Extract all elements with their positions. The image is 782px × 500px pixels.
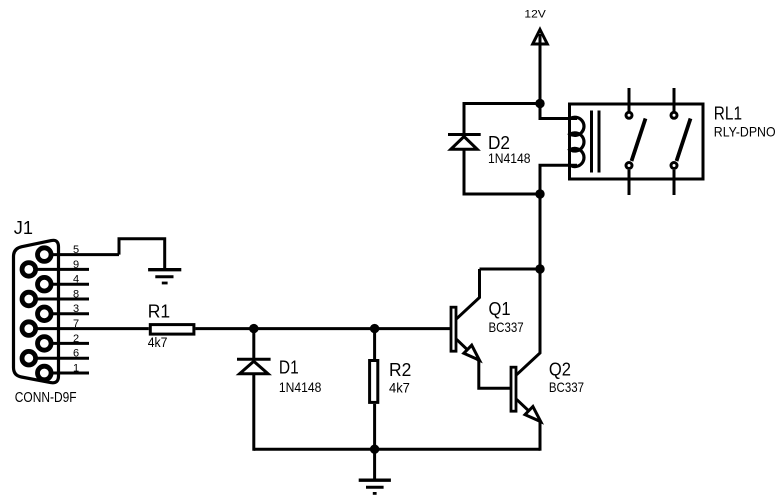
Q2 base bar (511, 367, 516, 411)
wire ground stub (373, 449, 376, 478)
relay RL1 box (570, 104, 704, 179)
svg-text:1N4148: 1N4148 (488, 150, 531, 166)
wire D2 bottom lead (463, 150, 466, 195)
svg-text:R2: R2 (389, 360, 411, 380)
svg-text:D1: D1 (279, 358, 299, 378)
power terminal 12V (533, 30, 548, 104)
svg-text:1N4148: 1N4148 (279, 379, 322, 395)
svg-text:Q2: Q2 (549, 359, 571, 379)
diode D1 (237, 359, 271, 374)
svg-text:BC337: BC337 (549, 379, 584, 395)
ground (bottom) (359, 480, 391, 493)
node R2 top junction (370, 324, 379, 333)
resistor R2 (370, 361, 378, 403)
wire node B down to collector node (539, 194, 542, 269)
transistor Q2 (511, 269, 541, 451)
wire D2 bottom to node B (463, 193, 541, 196)
Q1 base bar (451, 307, 456, 351)
node C junction (collectors) (535, 264, 544, 273)
relay core bars (592, 111, 600, 173)
svg-text:5: 5 (73, 244, 79, 256)
Q1 collector wire to node C (480, 268, 541, 271)
pin 3 line (44, 312, 89, 315)
Q2 emitter arrow (525, 407, 541, 422)
pin 6 line (29, 357, 89, 360)
pin 9 line (29, 268, 89, 271)
wire R1 to Q1 base (195, 327, 450, 330)
wire node A to relay coil top (540, 104, 577, 119)
pin 8 line (29, 298, 89, 301)
resistor R1 (150, 325, 194, 335)
svg-text:4k7: 4k7 (148, 334, 168, 350)
pin 2 line (44, 342, 89, 345)
Q2 collector (517, 269, 541, 375)
connector J1 body (14, 240, 59, 382)
Q1 emitter (457, 339, 479, 360)
relay coil (570, 117, 584, 166)
svg-text:1: 1 (73, 362, 79, 374)
node A junction (535, 99, 544, 108)
svg-text:7: 7 (73, 318, 79, 330)
svg-text:4k7: 4k7 (389, 380, 410, 396)
wire D1 bottom lead (252, 374, 255, 450)
svg-text:J1: J1 (14, 218, 33, 238)
relay switch 1 (626, 88, 646, 195)
wire R2 bottom lead (373, 404, 376, 449)
svg-text:8: 8 (73, 288, 79, 300)
svg-text:R1: R1 (148, 302, 170, 322)
wire node B to relay coil bottom (540, 165, 577, 194)
svg-text:Q1: Q1 (489, 299, 511, 319)
connector socket circles right column (38, 248, 52, 380)
transistor Q1 (451, 269, 540, 388)
pin 4 line (44, 283, 89, 286)
Q1 emitter wire to Q2 base (479, 361, 510, 389)
node B junction (535, 189, 544, 198)
Q1 collector (457, 269, 480, 319)
svg-text:RLY-DPNO: RLY-DPNO (714, 123, 776, 139)
wire D1 top lead (252, 329, 255, 360)
relay switch 2 (671, 88, 691, 195)
wire D2 top lead (463, 102, 466, 135)
svg-text:9: 9 (73, 259, 79, 271)
svg-text:6: 6 (73, 348, 79, 360)
diode D2 (448, 135, 481, 150)
Q1 emitter arrow (464, 345, 480, 360)
wire R2 top lead (373, 329, 376, 359)
svg-text:4: 4 (73, 274, 79, 286)
Q2 emitter (517, 399, 541, 421)
wire pin5 to ground (119, 239, 165, 268)
pin 1 line (44, 372, 89, 375)
node D1 top junction (249, 324, 258, 333)
bottom bus wire (254, 448, 540, 451)
node ground junction (370, 445, 379, 454)
connector socket circles left column (22, 263, 36, 365)
svg-text:BC337: BC337 (489, 319, 524, 335)
ground (pin5) (148, 270, 181, 283)
svg-text:CONN-D9F: CONN-D9F (15, 389, 77, 406)
pin 7 line / main bus (29, 327, 149, 330)
svg-text:RL1: RL1 (714, 104, 742, 124)
Q2 emitter wire down (539, 422, 542, 451)
svg-text:12V: 12V (524, 9, 546, 21)
wire 12V node to D2 top (464, 102, 540, 105)
pin 5 line (44, 253, 119, 256)
svg-text:2: 2 (73, 333, 79, 345)
svg-text:3: 3 (73, 303, 79, 315)
